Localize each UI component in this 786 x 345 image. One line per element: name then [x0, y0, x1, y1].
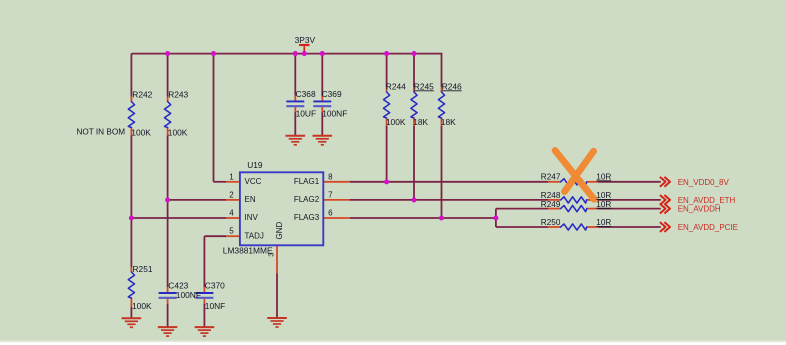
svg-text:VCC: VCC — [245, 177, 262, 186]
svg-text:7: 7 — [328, 190, 333, 199]
svg-text:100NF: 100NF — [322, 108, 347, 118]
svg-text:R251: R251 — [133, 264, 153, 274]
svg-text:FLAG3: FLAG3 — [294, 213, 320, 222]
svg-text:10R: 10R — [596, 200, 611, 209]
svg-text:100NF: 100NF — [176, 290, 201, 300]
svg-text:U19: U19 — [247, 160, 263, 170]
svg-text:10R: 10R — [596, 191, 611, 200]
svg-text:6: 6 — [328, 209, 333, 218]
svg-text:100K: 100K — [132, 301, 152, 311]
svg-text:EN: EN — [245, 195, 256, 204]
svg-text:R246: R246 — [442, 81, 462, 91]
svg-text:C369: C369 — [322, 89, 342, 99]
svg-text:3P3V: 3P3V — [295, 35, 316, 45]
svg-text:FLAG1: FLAG1 — [294, 177, 320, 186]
svg-text:GND: GND — [275, 222, 284, 240]
svg-text:100K: 100K — [168, 128, 188, 138]
svg-text:NOT IN BOM: NOT IN BOM — [77, 127, 126, 136]
svg-text:R245: R245 — [414, 81, 434, 91]
svg-text:2: 2 — [229, 190, 234, 199]
svg-text:EN_AVDD_PCIE: EN_AVDD_PCIE — [678, 223, 738, 232]
svg-text:100K: 100K — [386, 117, 406, 127]
svg-text:18K: 18K — [441, 117, 456, 127]
svg-text:3: 3 — [267, 253, 276, 257]
svg-text:FLAG2: FLAG2 — [294, 195, 320, 204]
svg-text:10R: 10R — [596, 172, 611, 181]
svg-text:R243: R243 — [168, 89, 188, 99]
svg-text:8: 8 — [328, 172, 333, 181]
svg-text:C368: C368 — [296, 89, 316, 99]
svg-text:R242: R242 — [132, 89, 152, 99]
svg-text:R244: R244 — [386, 81, 406, 91]
svg-text:10NF: 10NF — [205, 301, 225, 311]
svg-text:100K: 100K — [131, 128, 151, 138]
svg-text:10UF: 10UF — [296, 108, 316, 118]
svg-text:R248: R248 — [541, 191, 561, 200]
svg-text:EN_VDD0_8V: EN_VDD0_8V — [678, 178, 730, 187]
svg-text:TADJ: TADJ — [245, 231, 264, 240]
svg-text:R249: R249 — [541, 200, 561, 209]
svg-text:1: 1 — [229, 172, 234, 181]
svg-text:R250: R250 — [541, 218, 561, 227]
svg-text:10R: 10R — [596, 218, 611, 227]
svg-text:4: 4 — [229, 209, 234, 218]
svg-text:EN_AVDD_ETH: EN_AVDD_ETH — [678, 196, 736, 205]
svg-text:C370: C370 — [205, 280, 225, 290]
svg-text:LM3881MME: LM3881MME — [223, 245, 273, 255]
svg-text:C423: C423 — [168, 280, 188, 290]
svg-text:EN_AVDDH: EN_AVDDH — [678, 205, 721, 214]
svg-text:18K: 18K — [413, 117, 428, 127]
svg-text:5: 5 — [229, 227, 234, 236]
svg-text:INV: INV — [245, 213, 259, 222]
svg-text:R247: R247 — [541, 172, 561, 181]
